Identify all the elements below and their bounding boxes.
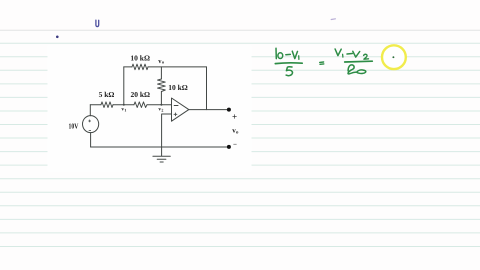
handwriting 5 denominator [286, 67, 292, 76]
resistor 20 kOhm zigzag [134, 102, 147, 108]
op-amp U1 triangle [172, 98, 189, 121]
svg-text:1: 1 [124, 107, 126, 112]
white figure background of pasted schematic image [48, 46, 252, 172]
label 20 kOhm [131, 90, 151, 99]
purple dash mark [331, 18, 335, 21]
label vo node top [158, 58, 165, 65]
wire: feedback right drop to output [206, 67, 208, 110]
svg-text:+: + [232, 112, 237, 122]
wire: vertical resistor to v2 node [160, 92, 162, 105]
op-amp minus input mark [174, 105, 178, 107]
wire: op-amp output to terminal [189, 109, 229, 111]
output minus sign [233, 141, 237, 149]
wire: bottom return rail [91, 146, 229, 148]
handwriting digit 1 of 10 [275, 48, 277, 58]
label 10 kOhm feedback [130, 53, 150, 62]
wire: source bottom lead [90, 133, 92, 147]
op-amp plus input mark [174, 113, 177, 116]
source plus sign [88, 120, 91, 123]
handwriting equals sign [320, 62, 324, 64]
resistor 10 kOhm feedback zigzag [132, 64, 148, 70]
yellow highlight circle [382, 45, 406, 69]
output plus sign [232, 112, 237, 122]
dark blue dot [56, 36, 59, 39]
voltage source 10V circle [83, 116, 99, 133]
wire: vo riser upper segment [160, 67, 162, 79]
wire: plus input to ground drop [162, 114, 172, 156]
junction node v2 [160, 104, 162, 106]
handwriting V2 [353, 51, 369, 59]
svg-text:10 kΩ: 10 kΩ [130, 53, 150, 62]
label 5 kOhm [99, 90, 115, 99]
wire: top feedback rail [124, 66, 207, 68]
wire: v1 riser to feedback rail [123, 67, 125, 105]
handwriting minus sign [286, 53, 291, 55]
terminal dot minus output [227, 145, 231, 149]
junction node v1 [123, 104, 125, 106]
handwriting minus sign right [347, 53, 352, 56]
label vo output [232, 126, 239, 135]
green dot inside yellow circle [392, 56, 394, 58]
label 10 kOhm vertical [168, 83, 188, 92]
handwriting 20 denominator [348, 65, 366, 74]
fraction bar right [345, 60, 373, 63]
handwriting digit 0 of 10 [278, 53, 283, 59]
wire: middle input rail v-source to op-amp minus input [90, 104, 171, 106]
label v1 [121, 106, 126, 112]
svg-text:10 kΩ: 10 kΩ [168, 83, 188, 92]
wire: source top lead [89, 105, 91, 116]
fraction bar left [275, 62, 302, 65]
svg-text:−: − [233, 141, 237, 149]
terminal dot plus output [227, 108, 231, 112]
circuit text labels [69, 53, 240, 148]
source minus sign [89, 129, 91, 131]
ruled lines [0, 30, 480, 246]
svg-text:2: 2 [161, 107, 163, 112]
blue mark U top [96, 20, 99, 26]
svg-text:10V: 10V [69, 122, 79, 131]
handwriting V1 [292, 51, 299, 59]
resistor 10 kOhm vertical zigzag [158, 79, 166, 92]
svg-text:20 kΩ: 20 kΩ [131, 90, 151, 99]
resistor 5 kOhm zigzag [101, 102, 113, 108]
svg-text:5 kΩ: 5 kΩ [99, 90, 115, 99]
ground [153, 156, 170, 162]
label v2 [158, 106, 163, 112]
label 10V [69, 122, 79, 131]
handwriting V1 right side [335, 49, 343, 57]
